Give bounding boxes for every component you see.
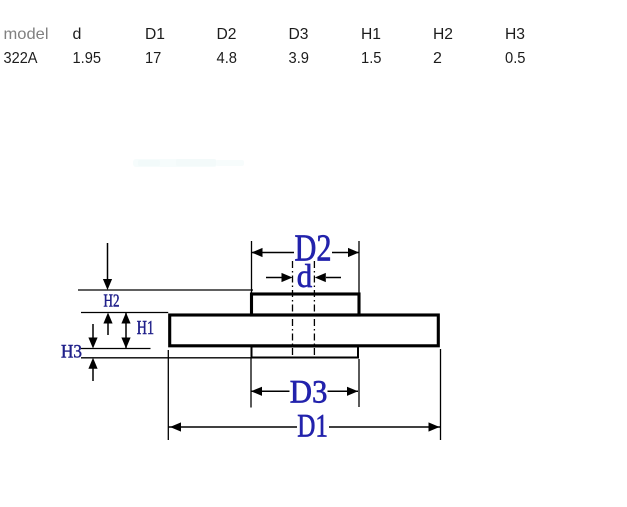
H1 double arrow: [125, 313, 127, 348]
svg-text:D1: D1: [145, 26, 165, 43]
svg-text:0.5: 0.5: [505, 50, 526, 67]
svg-text:322A: 322A: [4, 50, 38, 67]
svg-text:4.8: 4.8: [217, 50, 238, 67]
D3 extension line right: [358, 359, 360, 407]
svg-text:d: d: [297, 259, 313, 295]
D1 arrow right: [429, 422, 440, 431]
D3 arrow left: [251, 387, 262, 396]
d dimension arrow left: [266, 277, 282, 279]
centerline left (hole d): [292, 261, 294, 357]
part body: main disc rectangle (D1 x H1): [170, 315, 439, 346]
svg-text:D2: D2: [217, 26, 237, 43]
svg-text:model: model: [4, 26, 49, 43]
H2 down arrow: [107, 243, 109, 281]
svg-text:2: 2: [433, 50, 442, 67]
D2 extension line right: [358, 241, 360, 293]
D3 arrow right: [347, 387, 358, 396]
D2 arrow right: [348, 248, 359, 257]
D3 extension line left: [250, 359, 252, 408]
D2 dimension line: [252, 252, 295, 254]
D1 arrow left: [170, 422, 181, 431]
d dimension arrow right: [326, 277, 341, 279]
svg-text:1.5: 1.5: [361, 50, 382, 67]
D2 arrow left: [252, 248, 263, 257]
svg-text:3.9: 3.9: [289, 50, 310, 67]
svg-text:H3: H3: [61, 342, 82, 363]
D3 dimension line: [251, 390, 290, 392]
centerline right (hole d): [313, 261, 315, 357]
part body: bottom boss rectangle (D3 x H3): [252, 347, 359, 358]
svg-text:H3: H3: [505, 26, 525, 43]
D1 dimension line: [169, 426, 298, 428]
svg-text:H2: H2: [433, 26, 453, 43]
D1 extension line right: [440, 349, 442, 440]
svg-text:17: 17: [145, 50, 161, 67]
bottom boss lower extension line (to the left): [81, 357, 251, 359]
main bottom extension line (to the left): [81, 348, 151, 350]
H2 extension line (boss top, to the left): [78, 289, 253, 291]
svg-text:D3: D3: [290, 375, 328, 411]
D2 extension line left: [251, 241, 253, 293]
H2 opposing up arrow: [107, 323, 109, 336]
svg-text:H1: H1: [137, 318, 154, 339]
svg-text:d: d: [73, 26, 82, 43]
svg-text:D1: D1: [297, 409, 328, 445]
faint watermark remnant: [133, 159, 244, 167]
svg-text:1.95: 1.95: [73, 50, 102, 67]
H3 up arrow: [92, 368, 94, 381]
D1 extension line left: [167, 350, 169, 440]
svg-text:H1: H1: [361, 26, 381, 43]
main top extension line (to the left): [81, 312, 168, 314]
svg-text:H2: H2: [104, 290, 120, 310]
H3 down arrow: [92, 324, 94, 339]
part body: top boss rectangle (D2 x H2): [252, 294, 360, 315]
svg-text:D3: D3: [289, 26, 309, 43]
